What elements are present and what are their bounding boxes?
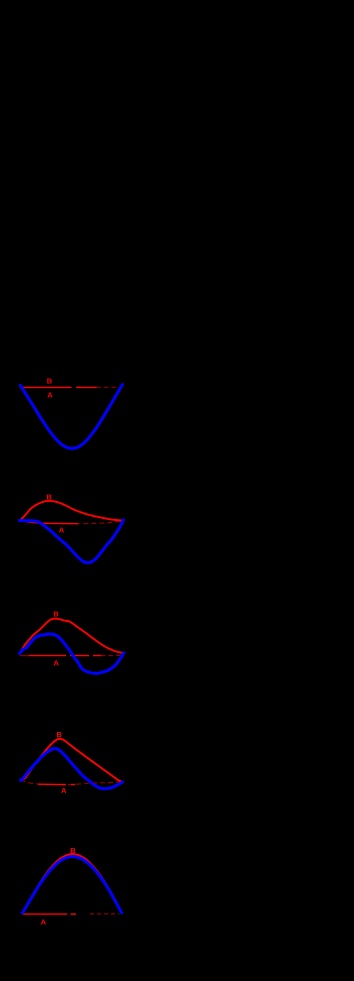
svg-text:B: B <box>70 846 76 855</box>
frame 2 red shallow sag curve A <box>20 521 123 524</box>
frame 1 red line A/B overlapping (bright solid part) <box>22 386 122 388</box>
frame 3 red bump curve B <box>20 619 124 654</box>
frame 4 red shallow sag curve A <box>21 780 123 785</box>
frame 1 blue curve (deep sine dip) <box>20 385 122 449</box>
frame 5 blue bump curve <box>22 856 121 913</box>
frame 2 red bump curve B <box>20 501 123 521</box>
frame 2 blue resultant curve <box>20 520 124 563</box>
svg-text:A: A <box>54 659 60 668</box>
svg-text:A: A <box>41 918 47 927</box>
frame 5 red axis line A <box>23 913 119 915</box>
frame 3 red axis line A <box>20 655 123 657</box>
svg-text:B: B <box>53 610 59 619</box>
svg-text:B: B <box>47 493 53 502</box>
frame 3 blue full-sine curve <box>20 634 124 673</box>
svg-text:A: A <box>59 526 65 535</box>
svg-text:A: A <box>47 390 53 399</box>
frame 4 red bump curve B <box>21 739 123 782</box>
svg-text:A: A <box>61 786 67 795</box>
svg-text:B: B <box>47 377 53 386</box>
svg-text:B: B <box>57 730 63 739</box>
frame 5 red bump curve B (peeking above blue at crest) <box>22 854 121 913</box>
frame 4 blue resultant curve <box>21 748 123 788</box>
